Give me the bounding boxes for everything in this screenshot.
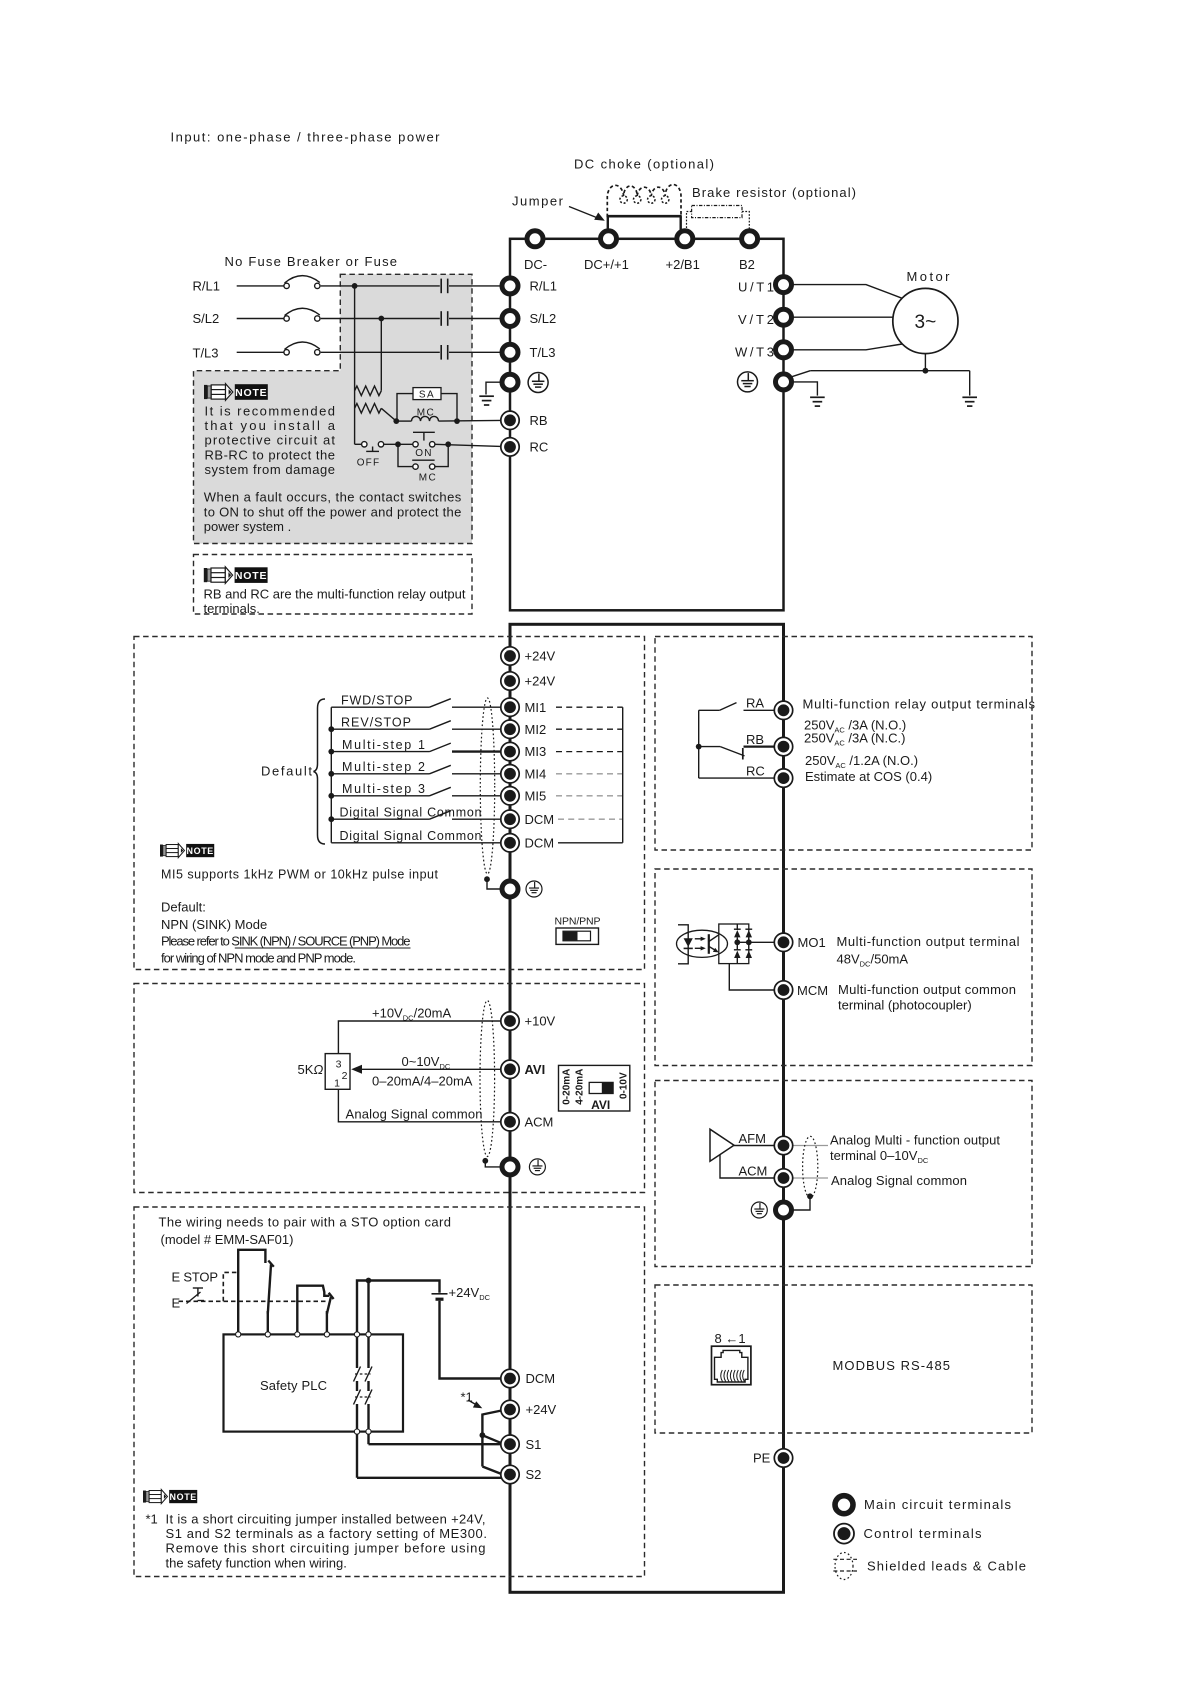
light arrows — [695, 937, 706, 951]
brake resistor box (dash-dot) — [692, 206, 742, 218]
PLC pin circles bottom — [354, 1429, 371, 1434]
svg-text:+24V: +24V — [525, 649, 556, 664]
svg-text:MO1: MO1 — [798, 935, 826, 950]
circled earth digital — [526, 881, 542, 897]
MI dashed bus right — [556, 707, 623, 843]
label *1 with arrow — [461, 1389, 483, 1408]
RJ45 jack — [712, 1346, 751, 1385]
protective circuit gray zone — [194, 274, 473, 543]
wire R tap vertical — [354, 286, 356, 444]
svg-text:MI5: MI5 — [525, 788, 547, 803]
svg-text:0-10V: 0-10V — [619, 1072, 630, 1099]
svg-text:S/L2: S/L2 — [530, 311, 557, 326]
svg-text:MI3: MI3 — [525, 744, 547, 759]
svg-text:MI4: MI4 — [525, 766, 547, 781]
svg-text:Multi-function output common: Multi-function output common — [838, 982, 1016, 997]
legend main circuit terminal — [835, 1496, 1012, 1514]
drive power-section outline box — [510, 239, 784, 611]
svg-text:Main circuit terminals: Main circuit terminals — [864, 1497, 1012, 1512]
node motor earth — [923, 368, 929, 374]
terminal shield ground analog — [502, 1159, 518, 1175]
circled earth analog — [529, 1159, 545, 1175]
shield ellipse digital — [480, 698, 494, 874]
brace default group — [314, 699, 326, 844]
terminal +10V — [501, 1012, 519, 1030]
svg-text:AVI: AVI — [591, 1098, 610, 1112]
section box relay output — [655, 637, 1032, 851]
terminal MI3 — [501, 742, 519, 760]
node jumper S1 — [480, 1432, 486, 1438]
svg-text:Multi-step 1: Multi-step 1 — [342, 738, 425, 752]
capacitor S phase — [441, 311, 448, 326]
NOTE icon 2 — [204, 567, 268, 584]
svg-text:terminals.: terminals. — [204, 601, 260, 616]
potentiometer 5K box — [325, 1054, 350, 1090]
svg-text:MI5 supports 1kHz PWM or 10kHz: MI5 supports 1kHz PWM or 10kHz pulse inp… — [161, 868, 439, 882]
terminal T/L3 — [502, 344, 518, 360]
node R tap — [352, 283, 358, 289]
svg-text:Shielded leads & Cable: Shielded leads & Cable — [867, 1558, 1026, 1573]
note3 default lines — [161, 899, 411, 965]
NOTE icon 3 — [160, 844, 214, 858]
legend shielded leads — [833, 1553, 1026, 1580]
svg-text:When a fault occurs, the conta: When a fault occurs, the contact switche… — [204, 490, 462, 505]
terminal R/L1 — [502, 278, 518, 294]
terminal MI5 — [501, 787, 519, 805]
terminal ground right — [776, 374, 792, 390]
amplifier triangle — [710, 1129, 734, 1161]
terminal MI4 — [501, 765, 519, 783]
svg-text:V/T2: V/T2 — [738, 312, 774, 327]
svg-text:that you install a: that you install a — [205, 418, 336, 433]
wire Digital Signal Common 2 — [331, 829, 501, 843]
svg-text:ACM: ACM — [739, 1163, 768, 1178]
surge absorber SA box — [413, 388, 441, 401]
NPN/PNP switch — [555, 916, 601, 945]
note1 paragraph — [204, 403, 462, 534]
svg-text:Estimate at COS (0.4): Estimate at COS (0.4) — [805, 769, 932, 784]
svg-text:AFM: AFM — [739, 1131, 766, 1146]
svg-text:*1: *1 — [146, 1511, 158, 1526]
circled earth AFM — [751, 1202, 767, 1218]
svg-text:4-20mA: 4-20mA — [575, 1069, 586, 1105]
terminal AFM — [774, 1136, 792, 1154]
svg-text:RA: RA — [746, 696, 764, 711]
svg-text:ON: ON — [415, 448, 432, 459]
jumper +24V/S1/S2 — [482, 1411, 501, 1475]
svg-text:8 ←1: 8 ←1 — [715, 1331, 746, 1346]
wire V/T2 to motor — [793, 316, 893, 318]
switch Multi-step 2 — [331, 760, 501, 774]
wire AVI with arrow — [351, 1065, 501, 1074]
svg-text:Analog Multi - function outpu: Analog Multi - function output — [830, 1132, 1000, 1147]
terminal MO1 — [774, 933, 792, 951]
switch Digital Signal Common 1 — [331, 805, 501, 819]
e-stop dashed links — [179, 1272, 327, 1301]
svg-text:Remove this short circuiting j: Remove this short circuiting jumper befo… — [166, 1541, 486, 1556]
svg-text:+10V: +10V — [525, 1014, 556, 1029]
svg-text:Multi-function output terminal: Multi-function output terminal — [837, 934, 1020, 949]
section box MO1 output — [655, 869, 1032, 1066]
terminal ACM in — [501, 1113, 519, 1131]
svg-text:ACM: ACM — [525, 1114, 554, 1129]
terminal S/L2 — [502, 311, 518, 327]
PLC pin circles top — [236, 1332, 372, 1337]
wire W/T3 to motor — [793, 344, 902, 350]
terminal RC — [501, 438, 519, 456]
terminal V/T2 — [776, 309, 792, 325]
svg-text:Brake resistor (optional): Brake resistor (optional) — [692, 185, 856, 200]
terminal RC relay — [774, 769, 792, 787]
svg-text:NPN (SINK) Mode: NPN (SINK) Mode — [161, 917, 267, 932]
svg-text:RC: RC — [746, 763, 765, 778]
wire digital left bus — [330, 707, 332, 843]
wire left PE to earth — [486, 382, 501, 394]
resistor upper (varistor) — [355, 386, 382, 396]
svg-text:RB and RC are the multi-functi: RB and RC are the multi-function relay o… — [204, 586, 466, 601]
wire SA right leg — [441, 394, 457, 422]
switch Multi-step 1 — [331, 738, 501, 752]
underline SINK/SOURCE — [235, 947, 411, 949]
svg-text:protective circuit at: protective circuit at — [205, 433, 336, 448]
switch Multi-step 3 — [331, 782, 501, 796]
jumper bar between DC+/+1 and +2/B1 — [607, 216, 682, 230]
svg-text:Digital Signal Common: Digital Signal Common — [340, 805, 482, 819]
svg-text:+2/B1: +2/B1 — [666, 257, 700, 272]
svg-text:E STOP: E STOP — [172, 1269, 219, 1284]
svg-text:MODBUS RS-485: MODBUS RS-485 — [833, 1358, 951, 1373]
svg-text:3~: 3~ — [915, 312, 937, 333]
AFM texts — [830, 1132, 1000, 1188]
svg-text:MC: MC — [419, 473, 438, 484]
wire +10V — [338, 1021, 501, 1054]
svg-text:Multi-step 3: Multi-step 3 — [342, 782, 425, 796]
motor circle 3~ — [893, 288, 958, 353]
shield ellipse analog — [480, 1001, 495, 1157]
terminal DCM sto — [501, 1369, 519, 1387]
node relay RB tap — [696, 744, 702, 750]
terminal U/T1 — [776, 277, 792, 293]
wire motor earth — [792, 354, 970, 396]
svg-text:250VAC /3A (N.C.): 250VAC /3A (N.C.) — [804, 731, 905, 748]
zener column 2 — [745, 929, 752, 958]
wire resistor to MC node — [381, 408, 396, 421]
wire RC row — [699, 763, 775, 778]
relay description texts — [803, 697, 1036, 785]
svg-text:U/T1: U/T1 — [738, 280, 774, 295]
svg-text:Please refer to SINK (NPN) / S: Please refer to SINK (NPN) / SOURCE (PNP… — [161, 934, 411, 949]
svg-text:NPN/PNP: NPN/PNP — [555, 916, 601, 928]
svg-text:terminal 0–10VDC: terminal 0–10VDC — [830, 1148, 929, 1165]
node zener mid 1 — [734, 939, 740, 945]
svg-text:RB-RC to protect the: RB-RC to protect the — [205, 447, 336, 462]
svg-text:DC+/+1: DC+/+1 — [584, 257, 629, 272]
svg-text:the safety function when wirin: the safety function when wiring. — [166, 1555, 347, 1570]
svg-text:Multi-function relay output te: Multi-function relay output terminals — [803, 697, 1036, 712]
svg-text:MI2: MI2 — [525, 722, 547, 737]
LED diode — [684, 938, 693, 948]
wire OFF to ON — [384, 443, 413, 445]
svg-text:DC choke (optional): DC choke (optional) — [574, 157, 714, 172]
drive control-section outline box — [510, 624, 784, 1592]
svg-text:system from damage: system from damage — [205, 462, 336, 477]
svg-text:FWD/STOP: FWD/STOP — [341, 693, 413, 707]
terminal MI2 — [501, 720, 519, 738]
ground motor earth symbol — [962, 397, 977, 406]
svg-text:The wiring needs to pair with: The wiring needs to pair with a STO opti… — [159, 1214, 452, 1229]
svg-text:RB: RB — [746, 732, 764, 747]
svg-text:for wiring of NPN mode and PNP: for wiring of NPN mode and PNP mode. — [161, 950, 356, 965]
svg-text:REV/STOP: REV/STOP — [341, 715, 411, 729]
svg-text:R/L1: R/L1 — [530, 279, 557, 294]
NOTE icon 1 — [204, 384, 268, 401]
wire PLC out to S2 — [357, 1477, 502, 1479]
svg-text:DCM: DCM — [525, 835, 555, 850]
svg-text:T/L3: T/L3 — [193, 345, 219, 360]
svg-text:DC-: DC- — [524, 257, 547, 272]
svg-text:48VDC/50mA: 48VDC/50mA — [837, 951, 909, 968]
terminal PE — [774, 1449, 792, 1467]
terminal ACM out — [774, 1169, 792, 1187]
Safety PLC box — [224, 1334, 404, 1431]
node ON right — [445, 441, 451, 447]
legend control terminal — [834, 1524, 982, 1544]
battery +24Vdc — [432, 1285, 491, 1302]
terminal +24V b — [501, 672, 519, 690]
svg-text:S1 and S2 terminals as a facto: S1 and S2 terminals as a factory setting… — [166, 1526, 488, 1541]
svg-text:S2: S2 — [526, 1467, 542, 1482]
ground drive right earth symbol — [810, 397, 825, 406]
jumper arrow — [569, 207, 605, 221]
brake resistor leads (dotted) — [687, 212, 692, 230]
photocoupler ellipse — [677, 930, 728, 957]
terminal shield ground AFM — [776, 1202, 792, 1218]
terminal S1 — [501, 1435, 519, 1453]
safety channel vertical 1 — [356, 1287, 358, 1478]
wire S tap vertical — [380, 319, 382, 391]
terminal +24V a — [501, 647, 519, 665]
svg-text:1: 1 — [334, 1077, 340, 1089]
svg-text:Default:: Default: — [161, 899, 206, 914]
node +24V feed — [366, 1278, 372, 1284]
node MC left — [393, 418, 399, 424]
safety channel vertical 2 — [367, 1281, 369, 1445]
wire ACM in — [338, 1089, 501, 1122]
PLC internal contacts pair 1 — [354, 1367, 373, 1382]
svg-text:AVI: AVI — [525, 1062, 546, 1077]
svg-text:Analog Signal common: Analog Signal common — [831, 1173, 967, 1188]
NOTE icon 4 — [143, 1490, 197, 1504]
svg-text:No Fuse Breaker or Fuse: No Fuse Breaker or Fuse — [225, 254, 398, 269]
wire feed to battery — [357, 1281, 440, 1293]
terminal MCM — [774, 981, 792, 999]
phototransistor Q — [709, 934, 719, 954]
node zener mid 2 — [746, 939, 752, 945]
capacitor T phase — [441, 345, 448, 360]
note2 text — [204, 586, 466, 616]
svg-text:Multi-step 2: Multi-step 2 — [342, 760, 425, 774]
note4 text — [146, 1511, 488, 1570]
svg-text:(model # EMM-SAF01): (model # EMM-SAF01) — [161, 1232, 294, 1247]
shield drain wire — [487, 880, 500, 889]
switch FWD/STOP — [331, 693, 501, 707]
terminal RB — [501, 411, 519, 429]
svg-text:OFF: OFF — [357, 458, 381, 469]
terminal +24V sto — [501, 1400, 519, 1418]
svg-text:to ON to shut off the power an: to ON to shut off the power and protect … — [204, 504, 462, 519]
svg-text:SA: SA — [419, 389, 435, 400]
svg-text:Digital Signal Common: Digital Signal Common — [340, 829, 482, 843]
zener clamp rectangle — [719, 924, 749, 964]
circled earth right — [738, 372, 758, 392]
MO1 texts — [797, 934, 1020, 1013]
svg-text:0–20mA/4–20mA: 0–20mA/4–20mA — [372, 1073, 473, 1088]
svg-text:MI1: MI1 — [525, 700, 547, 715]
ON switch — [413, 432, 435, 459]
terminal DCM 1 — [501, 810, 519, 828]
switch REV/STOP — [331, 715, 501, 729]
PLC internal contacts pair 2 — [354, 1390, 373, 1405]
svg-text:0-20mA: 0-20mA — [561, 1069, 572, 1105]
svg-text:DCM: DCM — [526, 1371, 556, 1386]
svg-text:Safety PLC: Safety PLC — [260, 1378, 327, 1393]
svg-text:MCM: MCM — [797, 983, 828, 998]
zener column 1 — [734, 924, 741, 964]
svg-text:Control terminals: Control terminals — [864, 1526, 983, 1541]
terminal DC- — [527, 231, 543, 247]
shield drain AFM — [793, 1197, 810, 1210]
switch RA (N.O.) — [699, 696, 775, 711]
svg-text:Jumper: Jumper — [512, 194, 564, 209]
section box digital inputs — [134, 637, 645, 970]
svg-text:Analog Signal common: Analog Signal common — [346, 1106, 483, 1121]
svg-text:250VAC /1.2A (N.O.): 250VAC /1.2A (N.O.) — [805, 753, 918, 770]
AVI selector box — [559, 1065, 630, 1111]
terminal B2 — [742, 231, 758, 247]
circled earth left — [528, 373, 548, 393]
node MC right — [454, 418, 460, 424]
shield ellipse AFM — [803, 1136, 818, 1197]
wire AFM — [734, 1131, 775, 1146]
svg-text:+24V: +24V — [526, 1402, 557, 1417]
terminal RB relay — [774, 737, 792, 755]
svg-text:5KΩ: 5KΩ — [298, 1062, 324, 1077]
wire ACM leg — [720, 1155, 775, 1179]
svg-text:+24V: +24V — [525, 674, 556, 689]
svg-text:DCM: DCM — [525, 812, 555, 827]
wire SA left leg — [397, 394, 413, 422]
gray stubs right of AFM/ACM — [793, 1146, 828, 1179]
DC choke coil (dashed) — [607, 185, 681, 217]
wire U/T1 to motor — [793, 285, 902, 299]
svg-text:power system .: power system . — [204, 519, 291, 534]
photocoupler bracket — [678, 925, 688, 964]
svg-text:It is a short circuiting jumpe: It is a short circuiting jumper installe… — [166, 1511, 486, 1526]
terminal DC+/+1 — [601, 231, 617, 247]
section box MODBUS — [655, 1285, 1032, 1433]
e-stop switch symbol — [187, 1288, 205, 1304]
terminal RA — [774, 701, 792, 719]
MC coil — [412, 408, 439, 422]
node S tap — [378, 316, 384, 322]
svg-text:S/L2: S/L2 — [193, 311, 220, 326]
terminal ground left — [502, 374, 518, 390]
svg-text:E: E — [172, 1295, 181, 1310]
wire battery to DCM — [440, 1301, 502, 1379]
svg-text:RC: RC — [530, 440, 549, 455]
section box AFM output — [655, 1081, 1032, 1267]
STO intro text — [159, 1214, 452, 1247]
wire R/L1 with breaker — [237, 276, 501, 286]
svg-text:B2: B2 — [739, 257, 755, 272]
MC auxiliary contact — [398, 444, 448, 483]
terminal shield ground digital — [502, 881, 518, 897]
wire T/L3 with breaker — [237, 342, 501, 352]
wire zener to MO1 — [737, 941, 774, 943]
capacitor R phase — [441, 279, 448, 294]
terminal MI1 — [501, 698, 519, 716]
svg-text:S1: S1 — [526, 1437, 542, 1452]
wire ON to RC — [435, 444, 501, 446]
svg-text:RB: RB — [530, 413, 548, 428]
terminal S2 — [501, 1465, 519, 1483]
wire MC row — [396, 419, 500, 422]
svg-text:PE: PE — [753, 1451, 771, 1466]
STO contact 1 — [238, 1250, 274, 1335]
section box analog inputs — [134, 984, 645, 1193]
wire PLC out to S1 — [369, 1443, 502, 1445]
wire MCM leg — [729, 964, 774, 990]
svg-text:terminal (photocoupler): terminal (photocoupler) — [838, 998, 972, 1013]
svg-text:Default: Default — [261, 764, 312, 779]
svg-text:2: 2 — [342, 1070, 348, 1082]
terminal DCM 2 — [501, 834, 519, 852]
wire drive right earth — [793, 382, 817, 396]
svg-text:R/L1: R/L1 — [193, 278, 220, 293]
STO contact 2 — [297, 1286, 333, 1335]
resistor lower (varistor) — [355, 404, 382, 414]
ground left earth symbol — [479, 396, 494, 405]
svg-text:3: 3 — [336, 1058, 342, 1070]
node ON left — [395, 441, 401, 447]
wire S/L2 with breaker — [237, 308, 501, 318]
wire relay common vertical — [698, 710, 700, 778]
OFF switch — [355, 444, 381, 468]
terminal W/T3 — [776, 342, 792, 358]
switch RB (N.C.) — [699, 732, 775, 760]
svg-text:It is recommended: It is recommended — [205, 403, 336, 418]
svg-text:T/L3: T/L3 — [530, 345, 556, 360]
terminal +2/B1 — [677, 231, 693, 247]
terminal AVI — [501, 1060, 519, 1078]
shield drain analog — [485, 1162, 500, 1167]
section box STO — [134, 1207, 645, 1577]
